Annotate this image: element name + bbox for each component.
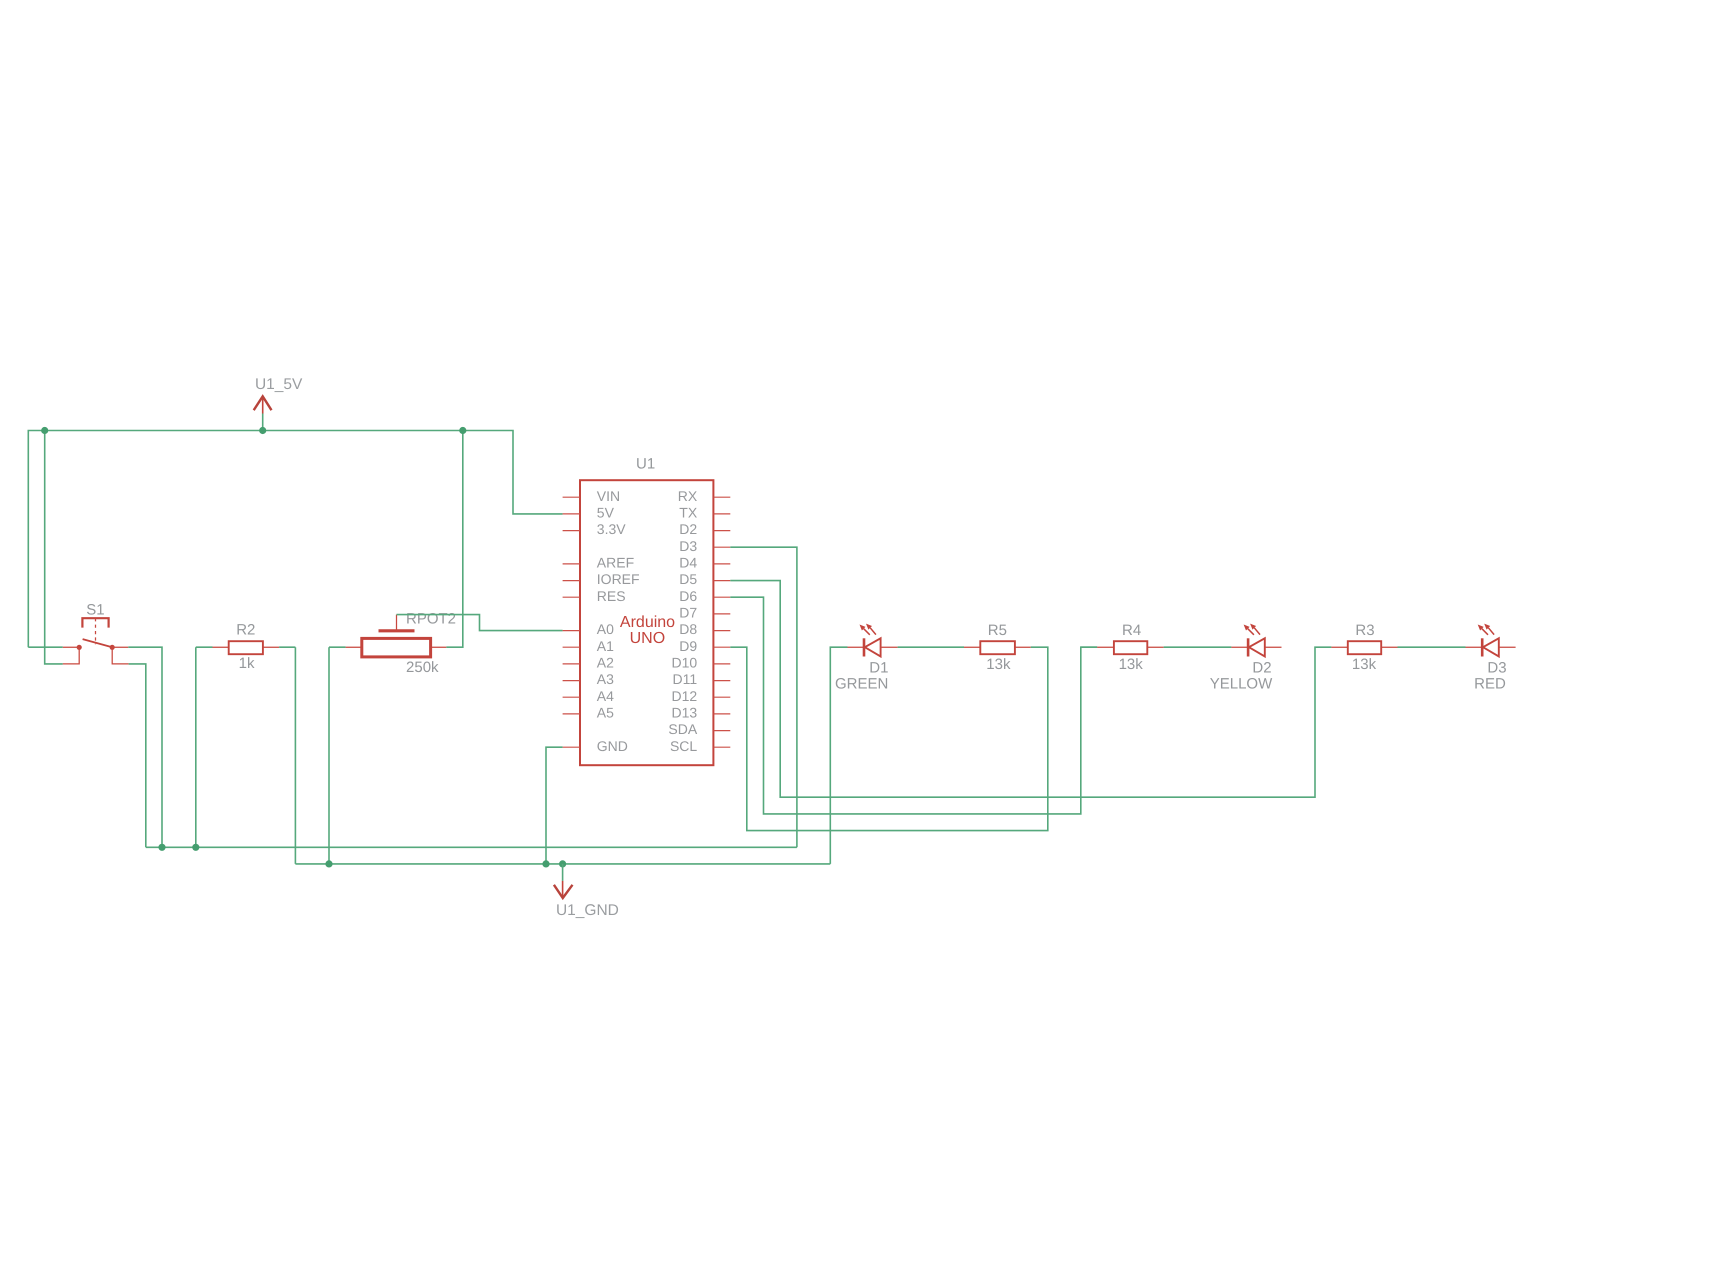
svg-text:IOREF: IOREF [597,571,640,587]
resistor R3 [1331,641,1465,654]
svg-text:D2: D2 [1252,659,1271,676]
svg-text:1k: 1k [239,655,255,672]
svg-text:A2: A2 [597,655,614,671]
junction rail/5V flag [259,427,266,434]
junction rail/S1 [41,427,48,434]
svg-text:RED: RED [1474,676,1506,693]
svg-text:TX: TX [679,505,698,521]
wire D6 net [730,597,1097,814]
svg-text:YELLOW: YELLOW [1210,676,1273,693]
svg-text:3.3V: 3.3V [597,521,626,537]
svg-text:D11: D11 [673,671,698,687]
svg-text:R5: R5 [988,622,1007,639]
potentiometer RPOT2 [329,615,446,657]
svg-text:U1: U1 [636,456,655,473]
svg-text:D3: D3 [1487,659,1506,676]
wire S1 top-left pin from rail [28,646,63,648]
svg-text:D2: D2 [679,521,697,537]
svg-text:D9: D9 [679,638,697,654]
svg-text:Arduino: Arduino [620,614,675,631]
wire S1 top-right to bus [128,647,162,847]
svg-text:D10: D10 [672,655,698,671]
svg-text:D3: D3 [679,538,697,554]
wire D1 left to gnd bus [830,647,847,864]
svg-text:R4: R4 [1122,622,1141,639]
wire D9 net [730,647,1048,830]
svg-text:5V: 5V [597,505,615,521]
svg-text:RX: RX [678,488,698,504]
svg-text:D8: D8 [679,621,697,637]
wire RPOT2 wiper to U1 A0 [397,615,563,631]
wire D1 to R5 [898,646,964,648]
pin labels U1 right [668,488,697,754]
svg-text:SCL: SCL [670,738,697,754]
power flag U1_5V [254,396,272,430]
svg-text:R3: R3 [1355,622,1374,639]
svg-text:13k: 13k [986,656,1011,673]
ic U1 Arduino UNO [580,480,713,765]
svg-text:R2: R2 [236,622,255,639]
resistor R4 [1081,641,1164,654]
wire D5 net [730,581,1331,798]
svg-text:D5: D5 [679,571,697,587]
wire GND bus [295,863,830,865]
junction gnd/U1 [542,860,549,867]
svg-text:13k: 13k [1119,656,1144,673]
wire rail branch to S1 bottom-left pin [45,431,63,664]
svg-text:S1: S1 [86,602,104,619]
svg-text:A1: A1 [597,638,614,654]
wire R2 right to gnd bus [294,647,296,864]
pin stubs U1 right [713,497,730,747]
junction bus/S1 right [158,844,165,851]
wire RPOT2 left to gnd bus [328,647,330,864]
svg-text:UNO: UNO [630,630,666,647]
svg-text:VIN: VIN [597,488,620,504]
wire D3 net [730,547,797,847]
wire U1 GND pin down [546,747,563,864]
wire 5V rail horizontal [28,431,562,648]
svg-text:D6: D6 [679,588,697,604]
resistor R5 [964,641,1031,654]
pin labels U1 left [597,488,640,754]
power flag U1_GND [554,864,573,898]
svg-text:RES: RES [597,588,626,604]
led D1 [848,624,898,657]
resistor R2 [196,641,296,654]
svg-text:SDA: SDA [668,721,697,737]
switch S1 [63,618,129,664]
svg-text:250k: 250k [406,659,439,676]
svg-text:U1_GND: U1_GND [556,902,619,919]
junction gnd/flag [559,860,566,867]
wire S1/R2/D3 bus [146,846,797,848]
svg-text:GREEN: GREEN [835,676,888,693]
pin stubs U1 left [563,497,580,747]
wire S1 bottom-right to bus [129,664,146,847]
wire rail branch to RPOT2 right pin [446,431,463,648]
svg-text:A4: A4 [597,688,614,704]
svg-text:A5: A5 [597,705,614,721]
junction rail/RPOT2 [459,427,466,434]
svg-text:D12: D12 [672,688,698,704]
svg-text:D1: D1 [869,659,888,676]
wire R2 left to bus [195,647,197,847]
svg-text:D7: D7 [679,605,697,621]
svg-text:D4: D4 [679,555,697,571]
wire R4 to D2 [1164,646,1232,648]
svg-text:AREF: AREF [597,555,634,571]
svg-text:D13: D13 [672,705,698,721]
svg-text:U1_5V: U1_5V [255,376,303,393]
svg-text:A0: A0 [597,621,614,637]
svg-text:RPOT2: RPOT2 [406,611,456,628]
led D2 [1231,624,1281,657]
led D3 [1466,624,1516,657]
svg-text:GND: GND [597,738,628,754]
svg-text:13k: 13k [1352,656,1377,673]
junction bus/R2 left [192,844,199,851]
svg-text:A3: A3 [597,671,614,687]
junction gnd/RPOT2 [325,860,332,867]
